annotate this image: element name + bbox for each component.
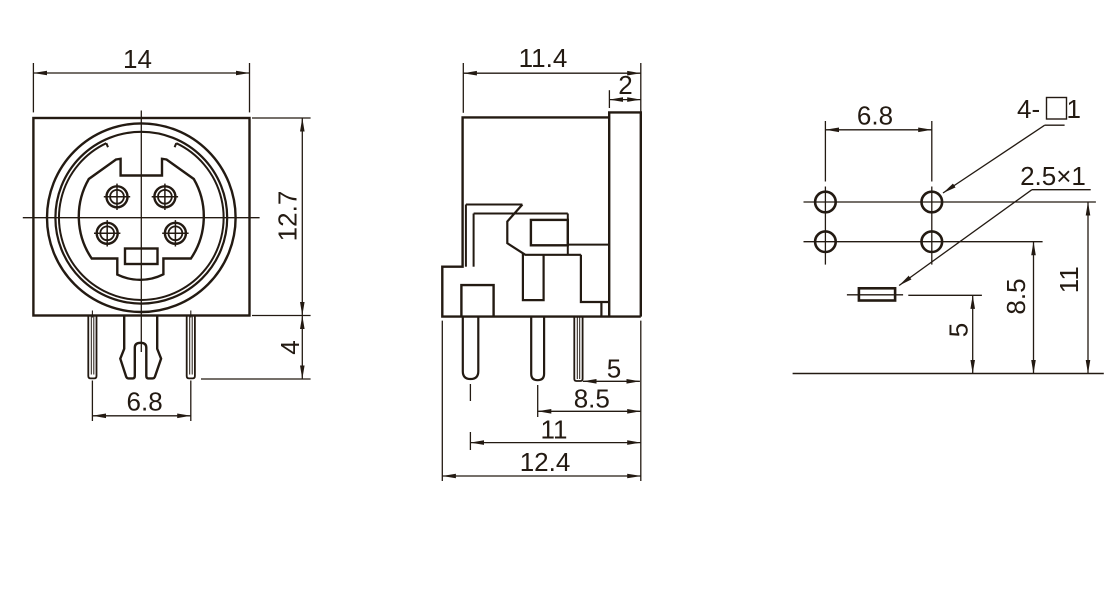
- svg-text:4: 4: [275, 340, 305, 354]
- leader for 2.5x1: [899, 190, 1091, 286]
- front outer circle: [47, 123, 236, 312]
- svg-text:12.7: 12.7: [273, 191, 303, 242]
- key slot rectangle: [125, 249, 158, 265]
- dimension 6.8 (front bottom): [92, 381, 190, 422]
- hole bottom-right: [922, 231, 943, 252]
- svg-text:4-: 4-: [1017, 94, 1040, 124]
- dimension 11 (side): [470, 384, 640, 450]
- front view horizontal center line: [23, 217, 260, 219]
- dimension 12.4 (side): [442, 321, 641, 481]
- leader for 4-square-1: [943, 125, 1065, 193]
- front center forked shield pin: [120, 316, 161, 379]
- svg-text:11: 11: [541, 415, 568, 445]
- dimension 11 (footprint): [1087, 202, 1089, 374]
- contact window rectangle: [531, 220, 568, 245]
- hole top-left: [815, 192, 836, 213]
- inner top bar upper edge: [466, 204, 523, 206]
- left column center line: [824, 121, 826, 265]
- svg-text:11.4: 11.4: [519, 43, 568, 73]
- svg-text:6.8: 6.8: [857, 101, 893, 131]
- front right mounting pin: [187, 311, 195, 379]
- svg-text:5: 5: [944, 323, 974, 337]
- window right edge extension: [567, 214, 569, 255]
- dimension 6.8 (footprint): [825, 129, 931, 131]
- base small window: [461, 285, 493, 317]
- slot center line: [847, 294, 903, 296]
- dimension 14 (top): [33, 63, 249, 112]
- top row center line: [804, 201, 1096, 203]
- svg-text:8.5: 8.5: [574, 384, 610, 414]
- inner top bar lower edge: [474, 213, 568, 215]
- middle pin channel: [523, 254, 544, 301]
- bottom row center line: [804, 241, 1043, 243]
- svg-text:8.5: 8.5: [1001, 278, 1031, 314]
- right column center line: [931, 121, 933, 265]
- dimension 8.5 (side): [538, 385, 641, 417]
- svg-text:5: 5: [607, 354, 621, 384]
- front left mounting pin: [88, 311, 96, 379]
- side left pin: [463, 317, 479, 379]
- side view right flange plate: [609, 112, 641, 316]
- step vertical: [581, 255, 609, 302]
- step notch vertical: [600, 302, 602, 317]
- dimension 12.7 (right): [252, 118, 311, 316]
- hole top-right: [922, 192, 943, 213]
- side view body outline: [442, 117, 641, 316]
- hole bottom-left: [815, 231, 836, 252]
- side middle pin: [531, 317, 544, 381]
- dimension 11.4: [463, 63, 641, 113]
- svg-text:6.8: 6.8: [127, 387, 163, 417]
- pin 3 (top-left): [104, 184, 130, 210]
- dimension 5 (side): [583, 380, 640, 382]
- third ring left hook: [106, 143, 108, 147]
- front view outer square body: [33, 118, 249, 316]
- dimension 5 (footprint): [972, 295, 974, 373]
- dimension 8.5 (footprint): [1033, 242, 1035, 374]
- third ring right hook: [175, 143, 177, 147]
- dimension 4 (right lower): [201, 316, 311, 380]
- horizontal line to right wall: [568, 244, 609, 246]
- front third ring arc with top gap: [59, 143, 224, 300]
- label 4-square-1: [1017, 94, 1081, 124]
- pin 4 (top-right): [152, 184, 178, 210]
- side right thin pin: [574, 317, 582, 381]
- contact bevel diagonal: [507, 205, 581, 255]
- svg-text:1: 1: [1067, 94, 1081, 124]
- extension line for 5 (footprint): [908, 294, 982, 296]
- pin 1 (bottom-left): [94, 220, 120, 246]
- svg-text:2: 2: [618, 70, 632, 100]
- front view vertical center line: [140, 111, 142, 353]
- inner vertical wall a: [465, 205, 467, 267]
- svg-text:14: 14: [123, 44, 152, 74]
- svg-text:12.4: 12.4: [520, 447, 571, 477]
- slot pad: [859, 288, 895, 300]
- dimension 2: [609, 90, 640, 108]
- front second ring: [55, 132, 227, 304]
- svg-text:2.5×1: 2.5×1: [1020, 161, 1086, 191]
- shield keyed outline: [79, 159, 204, 280]
- PCB edge baseline: [793, 373, 1104, 375]
- svg-text:11: 11: [1054, 266, 1084, 293]
- pin 2 (bottom-right): [162, 220, 188, 246]
- inner vertical wall b: [473, 214, 475, 267]
